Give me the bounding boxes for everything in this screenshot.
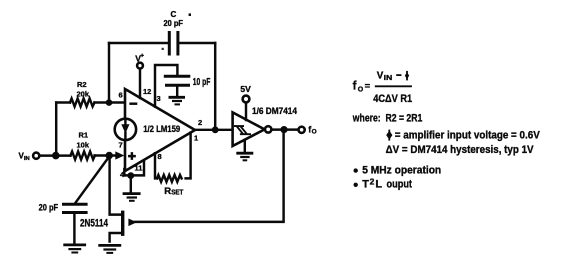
svg-text:4CΔV R1: 4CΔV R1 [373,93,412,105]
bullet T2L ouput [354,183,358,187]
svg-text:T: T [362,179,369,191]
svg-text:C: C [171,10,177,19]
ground for 10 pF [169,97,186,104]
wire vertical joining R2 left end to VIN node [55,103,57,156]
svg-text:1/2 LM159: 1/2 LM159 [143,124,180,134]
svg-text:6: 6 [119,91,123,100]
terminal 5V supply [240,84,251,120]
svg-text:L: L [375,179,382,191]
wire V+ to pin 12 [139,69,141,98]
output bubble [265,126,271,132]
ground for 20 pF [63,245,86,253]
node output junction with C loop [212,126,219,133]
wire R2 line to pin 6 [56,101,125,103]
wire top loop right segment from capacitor C [180,42,215,44]
node pin4/11 ground junction [127,172,134,179]
wire pin 3 to 10 pF capacitor [155,65,177,107]
svg-text:O: O [312,129,317,136]
wire pin 4 to ground node [123,169,125,175]
resistor R2 20k [70,80,95,107]
wire left vertical from top loop down to pin 6 node [108,43,110,103]
node A junction of C with pin 6 wire [106,99,113,106]
svg-text:IN: IN [384,73,393,82]
svg-text:1/6 DM7414: 1/6 DM7414 [252,106,297,116]
node feedback junction [280,126,287,133]
svg-text:where: R2 = 2R1: where: R2 = 2R1 [352,113,422,125]
ground for FET source [98,245,121,253]
transistor Q1 2N5114 JFET [80,159,137,242]
svg-text:R: R [164,186,171,197]
svg-text:11: 11 [135,163,143,172]
svg-text:3: 3 [157,94,161,103]
inverter U2 1/6 DM7414 [233,112,265,146]
svg-text:ΔV = DM7414 hysteresis, typ 1V: ΔV = DM7414 hysteresis, typ 1V [386,144,535,156]
svg-text:7: 7 [119,141,123,150]
svg-text:R1: R1 [79,130,89,139]
resistor R1 10k [71,130,96,159]
svg-text:12: 12 [143,87,151,96]
svg-text:=: = [365,81,371,92]
current source circle on amp left edge [115,119,136,140]
svg-text:5 MHz operation: 5 MHz operation [362,165,441,177]
op-amp U1 1/2 LM159 triangle [125,89,195,171]
phi = amplifier input voltage = 0.6V [386,129,540,141]
svg-text:2: 2 [370,176,375,186]
wire inverter output to fO terminal [272,128,298,130]
arrowhead into + input (Norton mirror input) [115,151,124,159]
arrow down inside current source [121,124,129,133]
capacitor C 20 pF [162,10,191,56]
ground for amp pins 4 and 11 [123,194,141,201]
terminal fO [299,127,305,133]
wire pin 11 to ground node [124,161,144,176]
ground for inverter [236,140,253,160]
wire right vertical from top loop down to output node [214,43,216,130]
terminal VIN [33,153,39,159]
node VIN junction [52,152,60,160]
svg-text:R2: R2 [77,80,87,89]
svg-text:20 pF: 20 pF [39,203,59,213]
svg-text:SET: SET [171,189,184,196]
svg-text:2: 2 [198,118,202,127]
resistor RSET from pin 8 to pin 1 [155,133,191,197]
svg-text:20 pF: 20 pF [164,19,184,28]
wire feedback from output node down and left to FET gate [135,133,284,222]
svg-text:10k: 10k [77,141,90,150]
svg-text:+: + [140,53,144,60]
svg-text:= amplifier input voltage = 0.: = amplifier input voltage = 0.6V [395,129,541,141]
svg-text:ouput: ouput [387,179,413,191]
minus input marker [131,102,137,104]
wire R1 to pin 7 [95,154,119,156]
svg-text:1: 1 [194,134,198,143]
svg-text:8: 8 [158,152,162,161]
wire diagonal from VIN node to 20 pF capacitor [76,158,109,203]
svg-text:O: O [358,86,364,93]
svg-text:2N5114: 2N5114 [80,217,109,229]
terminal V+ supply [135,53,144,99]
capacitor C2 10 pF [164,76,211,96]
formula fO = (VIN - phi)/(4C dV R1) [353,70,413,105]
capacitor C3 20 pF [39,203,88,244]
svg-text:f: f [353,80,357,92]
bullet 5 MHz operation [354,168,358,172]
hysteresis symbol [234,126,251,134]
wire top loop left segment to capacitor C [109,42,168,44]
svg-text:10 pF: 10 pF [193,77,211,88]
plus input marker [129,153,134,158]
node junction of R1 line with C feedback vertical and FET drain [106,152,113,159]
wire VIN to R1 [40,154,71,156]
svg-text:5V: 5V [240,84,251,94]
wire amp output to inverter input [195,129,232,131]
svg-text:20k: 20k [77,89,90,98]
